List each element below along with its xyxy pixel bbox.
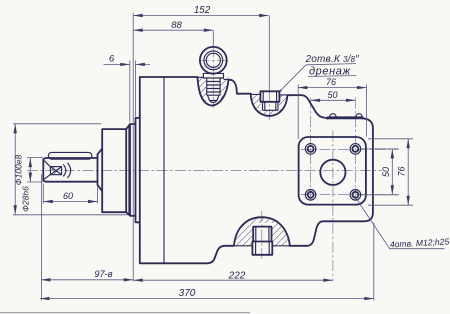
- svg-text:370: 370: [179, 288, 196, 299]
- mounting flange front view: [299, 137, 366, 205]
- dim 370: [40, 223, 374, 301]
- centre hole cone lines: [44, 160, 51, 179]
- svg-text:60: 60: [63, 191, 73, 201]
- dim 50 right: [361, 149, 399, 195]
- drain plug thread: [263, 102, 279, 111]
- flange bolt hole M12: [308, 146, 314, 152]
- leader 4 holes M12: [355, 196, 445, 249]
- eye ring centerline: [199, 59, 229, 61]
- body top line behind eye boss: [197, 77, 229, 79]
- svg-text:6: 6: [109, 54, 115, 65]
- svg-text:50: 50: [381, 167, 391, 177]
- bottom plug head: [252, 242, 272, 255]
- shaft: [43, 158, 97, 182]
- body bottom line behind bottom boss: [234, 245, 290, 247]
- flange vertical centerline: [332, 131, 334, 282]
- dim 152: [133, 15, 268, 17]
- svg-text:76: 76: [397, 166, 407, 176]
- flange hole column centerlines: [310, 98, 312, 209]
- shaft centre hole (hatched): [50, 167, 61, 175]
- flange bolt hole M12: [308, 192, 314, 198]
- disc step B with chamfers: [126, 125, 130, 215]
- faint sheet edge bottom: [0, 312, 250, 314]
- body inner face line: [163, 77, 165, 263]
- dim 6: [104, 61, 151, 123]
- dim dia 100e8: [13, 124, 128, 215]
- flange bolt hole M12: [352, 192, 358, 198]
- dim 60: [43, 184, 97, 204]
- collar ring on body face: [136, 118, 140, 222]
- eye bolt ring: [200, 47, 227, 74]
- svg-text:Ф28h6: Ф28h6: [21, 186, 31, 212]
- bottom plug centerline: [261, 211, 263, 259]
- dim 222: [133, 279, 333, 281]
- spigot (pilot) disc: [130, 124, 136, 216]
- drain plug head: [260, 91, 279, 102]
- dim 88: [133, 29, 213, 31]
- svg-text:97-в: 97-в: [94, 269, 112, 279]
- shaft collar: [98, 149, 103, 191]
- eye-bolt boss hatched pocket: [197, 77, 229, 106]
- flange hole row centerlines: [301, 148, 399, 150]
- eye bolt threaded shank: [207, 78, 220, 95]
- drain plug centerline: [268, 16, 270, 91]
- body top line behind drain boss: [251, 93, 288, 96]
- centre hole outline: [50, 167, 61, 175]
- svg-text:2отв.К 3/8″: 2отв.К 3/8″: [305, 54, 360, 65]
- svg-text:50: 50: [327, 90, 337, 100]
- ext line mounting face: [132, 13, 134, 282]
- key on shaft: [48, 152, 91, 159]
- pump body outline: [140, 77, 373, 263]
- bottom plug thread: [253, 227, 271, 242]
- flange bolt hole M12: [352, 146, 358, 152]
- svg-text:Ф100е8: Ф100е8: [14, 155, 24, 186]
- dim 50 top: [311, 99, 356, 101]
- leader 2 holes K3/8: [280, 64, 356, 91]
- drain boss hatched pocket: [251, 94, 288, 116]
- dim 76 top: [298, 85, 367, 140]
- stud plate on step (side view): [328, 114, 363, 120]
- dim dia 28h6: [27, 158, 43, 182]
- dim 97-v: [41, 174, 133, 301]
- bottom boss hatched dome: [234, 217, 290, 246]
- eye bolt tip: [208, 95, 219, 102]
- bearing cover disc: [102, 129, 126, 212]
- flange central hole: [320, 160, 345, 185]
- eye-bolt centerline: [212, 30, 214, 46]
- svg-text:дренаж: дренаж: [309, 66, 351, 78]
- dim 76 right: [368, 139, 413, 205]
- svg-text:152: 152: [194, 5, 211, 16]
- centre hole cone arcs: [63, 163, 70, 178]
- svg-text:222: 222: [228, 270, 246, 281]
- svg-text:88: 88: [171, 20, 182, 31]
- eye bolt collar: [203, 73, 223, 78]
- main axis centerline: [27, 169, 382, 171]
- svg-text:76: 76: [326, 77, 336, 87]
